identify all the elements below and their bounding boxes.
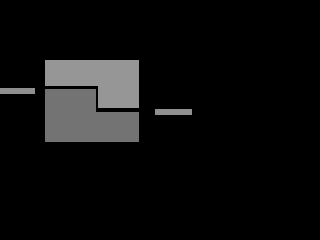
back window (light gray) (45, 60, 139, 112)
front window step horizontal border (black) (96, 108, 139, 111)
front window top border (black) (45, 86, 98, 89)
left edge bar (gray) (0, 88, 35, 93)
notch showing back window (light gray) (98, 89, 139, 109)
right edge bar (gray) (155, 109, 192, 115)
front window step vertical border (black) (96, 86, 99, 112)
front window body (dark gray) (45, 89, 139, 142)
